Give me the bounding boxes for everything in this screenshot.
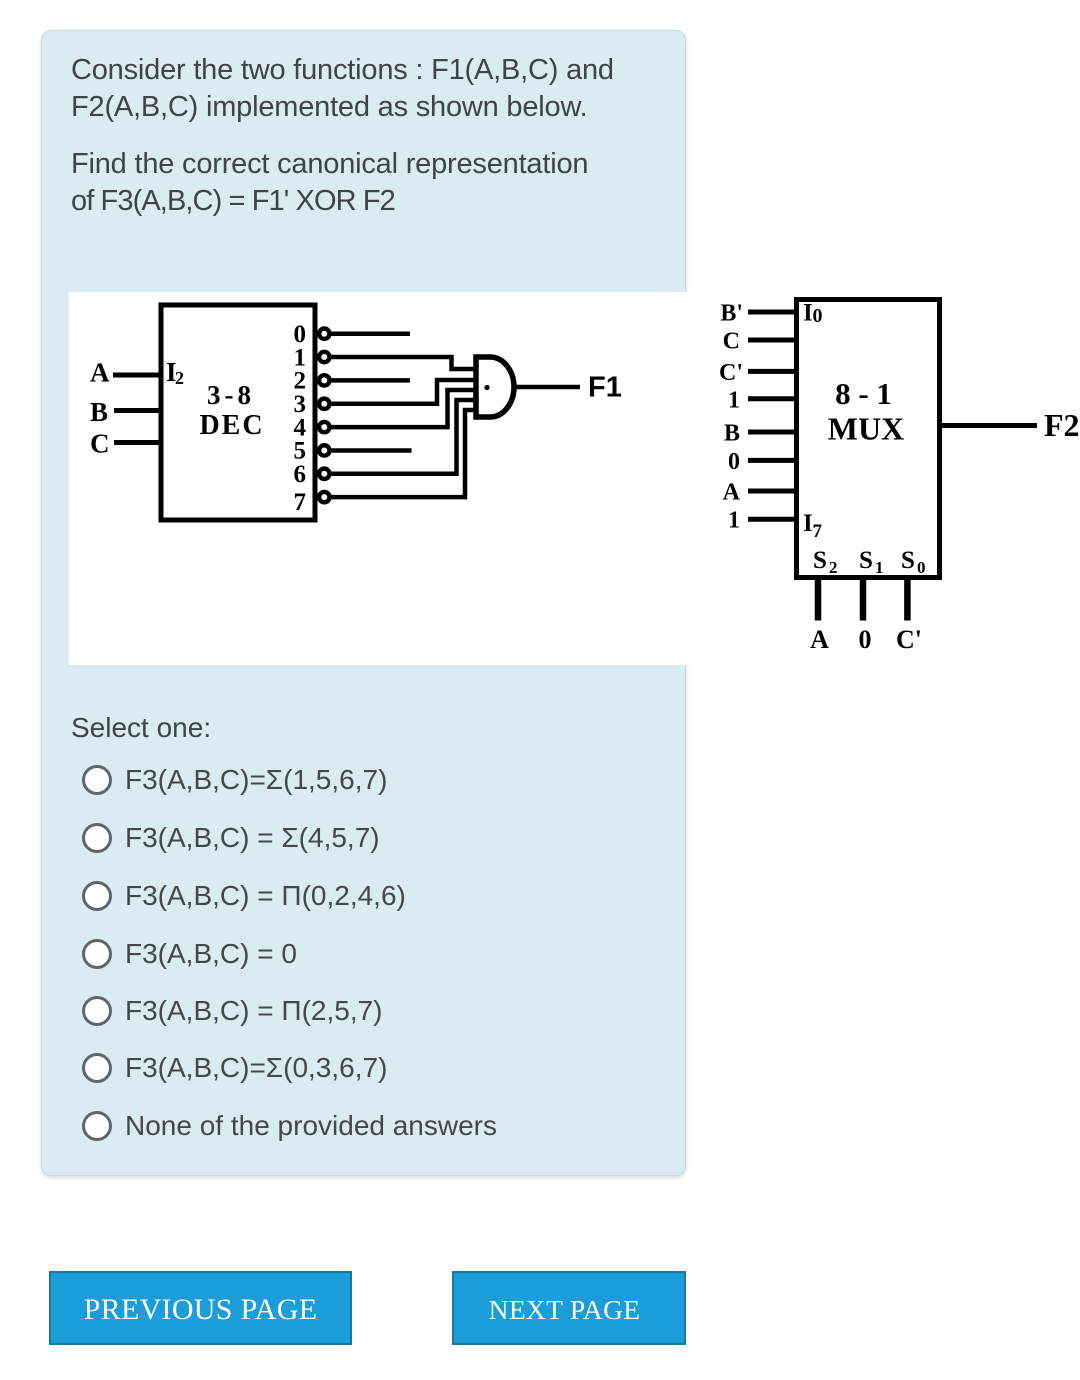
svg-text:8 - 1: 8 - 1 [835,376,892,411]
svg-text:F2: F2 [1044,407,1080,443]
svg-text:6: 6 [294,461,307,488]
svg-text:C: C [723,329,740,355]
svg-text:C: C [90,429,110,459]
svg-text:0: 0 [813,305,823,327]
svg-text:0: 0 [917,558,926,577]
svg-text:2: 2 [175,368,184,388]
svg-text:A: A [810,625,829,654]
svg-text:I: I [803,300,813,327]
svg-text:3-8: 3-8 [207,380,255,410]
svg-text:S: S [859,547,873,574]
svg-text:A: A [723,480,741,506]
svg-text:7: 7 [294,489,307,516]
svg-text:I: I [803,510,813,537]
svg-text:B: B [90,397,108,427]
svg-text:1: 1 [728,508,740,534]
svg-text:A: A [90,358,110,388]
svg-text:S: S [813,547,827,574]
svg-text:B: B [724,421,740,447]
svg-text:DEC: DEC [199,410,264,441]
svg-text:F1: F1 [588,372,622,404]
svg-text:S: S [901,547,915,574]
svg-text:0: 0 [728,449,740,475]
svg-text:7: 7 [813,521,823,542]
svg-text:C': C' [896,625,922,654]
svg-text:1: 1 [728,387,740,413]
svg-text:MUX: MUX [828,411,904,447]
svg-text:0: 0 [859,625,872,654]
svg-text:C': C' [719,360,743,386]
svg-text:1: 1 [875,558,884,577]
svg-text:B': B' [720,301,743,327]
svg-text:2: 2 [829,558,838,577]
